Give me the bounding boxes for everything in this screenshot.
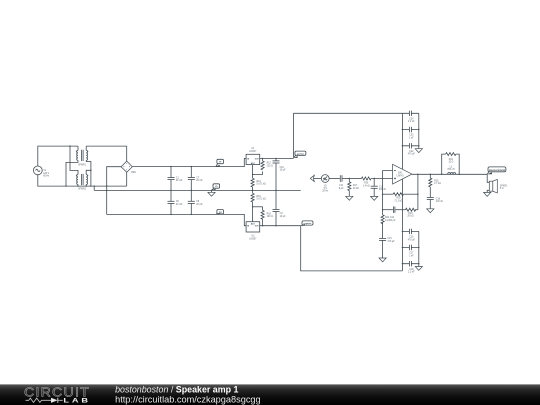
- wire top capacitor bank right rail: [418, 113, 420, 148]
- capacitor C23: [402, 127, 420, 140]
- svg-text:R20: R20: [434, 181, 439, 183]
- svg-text:5.071 kΩ: 5.071 kΩ: [257, 184, 267, 186]
- wire U1 out: [260, 157, 294, 159]
- svg-text:R16: R16: [364, 183, 369, 185]
- svg-text:BR2: BR2: [131, 172, 136, 174]
- wire mid ground rail: [94, 186, 301, 190]
- capacitor C17: [402, 245, 420, 258]
- svg-text:14,000 µF: 14,000 µF: [385, 220, 396, 222]
- resistor R19: [383, 193, 418, 203]
- svg-text:120 Ω: 120 Ω: [267, 165, 273, 167]
- svg-text:XFMR2: XFMR2: [78, 188, 87, 190]
- ground below speaker: [484, 192, 491, 196]
- wire U2 adj: [253, 206, 263, 208]
- wire positive rail up and right: [294, 113, 403, 158]
- resistor R15: [251, 190, 266, 221]
- svg-text:1 nF: 1 nF: [409, 255, 414, 257]
- svg-text:120 Ω: 120 Ω: [267, 216, 273, 218]
- wire XFMR1 primary bottom: [66, 160, 78, 186]
- wire VN lower rail: [107, 214, 246, 225]
- resistor R17: [348, 178, 359, 197]
- inductor L1: [447, 167, 456, 175]
- svg-text:20 Hz: 20 Hz: [322, 191, 329, 193]
- node positive flag: [294, 151, 306, 158]
- svg-text:R21: R21: [449, 159, 454, 161]
- svg-text:C19: C19: [436, 198, 441, 200]
- node input arrow flag: [310, 175, 321, 181]
- wire XFMR1 pins: [78, 146, 127, 150]
- svg-text:10 µF: 10 µF: [280, 170, 287, 172]
- wire op-amp output: [412, 173, 487, 175]
- wire bridge top: [126, 146, 128, 161]
- transformer XFMR2: [76, 174, 89, 191]
- svg-text:ADJ: ADJ: [251, 222, 255, 225]
- svg-text:R23: R23: [408, 213, 413, 215]
- resistor R16: [349, 177, 392, 187]
- svg-text:negative: negative: [304, 222, 312, 225]
- svg-text:R18: R18: [267, 213, 272, 215]
- capacitor C9: [273, 190, 287, 226]
- transformer XFMR1: [76, 150, 89, 167]
- wire bridge right VP feed: [132, 158, 246, 166]
- capacitor C1: [168, 166, 184, 191]
- wire bridge left to VN: [107, 167, 121, 215]
- capacitor C11: [339, 175, 349, 190]
- wire to speaker: [487, 174, 489, 192]
- svg-text:4.7 kΩ: 4.7 kΩ: [434, 183, 441, 185]
- ground below C12: [371, 196, 378, 200]
- capacitor C22: [402, 143, 420, 156]
- svg-text:1.4 kΩ: 1.4 kΩ: [363, 185, 370, 187]
- capacitor C19: [427, 197, 444, 208]
- svg-text:8 Ω: 8 Ω: [500, 188, 504, 190]
- svg-text:1 nF: 1 nF: [409, 137, 414, 139]
- svg-text:C24: C24: [409, 119, 414, 121]
- svg-text:R19: R19: [396, 198, 401, 200]
- svg-text:C15: C15: [387, 238, 392, 240]
- capacitor C15: [379, 223, 395, 258]
- capacitor C18: [402, 261, 420, 274]
- svg-text:20 kΩ: 20 kΩ: [407, 216, 413, 218]
- svg-text:LM317: LM317: [249, 151, 257, 153]
- svg-text:C22: C22: [409, 151, 414, 153]
- svg-text:20 mF: 20 mF: [176, 204, 183, 206]
- svg-text:470 µF: 470 µF: [408, 154, 416, 156]
- wire U2 out: [260, 225, 301, 227]
- wire V2 to C11: [329, 178, 340, 180]
- svg-text:8 µF: 8 µF: [339, 188, 344, 190]
- ground below C19: [427, 209, 434, 213]
- node junction dots left: [69, 145, 70, 146]
- wire V1 top to XFMR1 primary: [38, 146, 78, 166]
- svg-text:OA1: OA1: [398, 171, 403, 174]
- wire primary parallel feed: [70, 146, 78, 174]
- node measurement flag: [487, 167, 506, 174]
- capacitor C6: [168, 190, 184, 215]
- svg-text:C23: C23: [409, 135, 414, 137]
- wire V1 bottom rail: [38, 175, 127, 186]
- ground bottom capacitor bank: [415, 267, 422, 271]
- resistor R12: [261, 158, 273, 175]
- wire op-amp inverting input loop: [383, 171, 393, 215]
- svg-text:220 nF: 220 nF: [436, 201, 444, 203]
- svg-text:measurement: measurement: [489, 169, 505, 172]
- svg-text:10 µF: 10 µF: [280, 216, 287, 218]
- capacitor C10: [273, 158, 287, 191]
- svg-text:20 mF: 20 mF: [176, 180, 183, 182]
- svg-text:10 Ω: 10 Ω: [448, 162, 453, 164]
- node VN flag: [216, 210, 224, 215]
- ground below C15: [379, 258, 386, 262]
- svg-text:71.1 kΩ: 71.1 kΩ: [394, 200, 402, 202]
- svg-text:5.071 kΩ: 5.071 kΩ: [257, 199, 267, 201]
- capacitor C12: [371, 178, 387, 197]
- wire negative rail down and right: [301, 226, 403, 271]
- svg-text:60 Hz: 60 Hz: [43, 175, 50, 177]
- wire op-amp negative supply: [401, 179, 403, 271]
- node negative flag: [301, 221, 313, 226]
- svg-text:http://circuitlab.com/czkapga8: http://circuitlab.com/czkapga8sgcgg: [115, 395, 261, 405]
- regulator U1 LM317: [246, 148, 260, 165]
- svg-text:C11: C11: [339, 185, 344, 187]
- bridge rectifier BR2: [121, 161, 136, 174]
- regulator U2 LM337: [246, 222, 260, 241]
- voltage source V1: [33, 166, 50, 177]
- wire XFMR2 bottom stubs: [78, 185, 86, 187]
- capacitor C16: [402, 229, 419, 242]
- svg-text:470 µF: 470 µF: [408, 239, 416, 241]
- wire bridge bottom: [126, 172, 128, 186]
- svg-text:20 kΩ: 20 kΩ: [353, 188, 359, 190]
- capacitor C13: [383, 207, 406, 213]
- node VP flag: [216, 159, 224, 166]
- capacitor C24: [402, 111, 418, 124]
- ground below R17: [346, 196, 353, 200]
- wire XFMR1 secondary bottom / center tap: [86, 160, 91, 186]
- capacitor C8: [188, 190, 204, 215]
- svg-text:R12: R12: [267, 163, 272, 165]
- svg-text:700 nH: 700 nH: [447, 169, 455, 171]
- svg-text:C17: C17: [409, 253, 414, 255]
- resistor R20: [429, 174, 441, 198]
- svg-text:R15: R15: [257, 196, 262, 198]
- op-amp OA1 LM741: [393, 164, 412, 184]
- ground top capacitor bank: [415, 149, 422, 153]
- svg-text:LAB: LAB: [63, 398, 91, 405]
- svg-text:R13: R13: [257, 181, 262, 183]
- svg-text:V0: V0: [215, 186, 217, 188]
- capacitor C7: [188, 166, 204, 191]
- node V0 flag and ground on mid rail: [208, 184, 220, 196]
- speaker SPKR1: [489, 179, 508, 193]
- signal source V2: [321, 175, 329, 193]
- svg-text:C18: C18: [409, 269, 414, 271]
- svg-text:C16: C16: [409, 237, 414, 239]
- svg-text:LM741: LM741: [397, 176, 405, 178]
- svg-text:ADJ: ADJ: [251, 162, 255, 165]
- wire bottom capacitor bank right rail: [418, 231, 420, 266]
- svg-text:R22 C14: R22 C14: [385, 217, 395, 219]
- resistor R13: [251, 178, 266, 191]
- svg-text:C12: C12: [379, 186, 384, 188]
- svg-text:positive: positive: [297, 152, 304, 155]
- wire U1 adj: [253, 165, 263, 179]
- wire feedback vertical: [417, 174, 419, 209]
- svg-text:C10: C10: [280, 167, 285, 169]
- svg-text:LM337: LM337: [249, 239, 257, 241]
- svg-text:470 µF: 470 µF: [387, 241, 395, 243]
- svg-text:R17: R17: [353, 185, 358, 187]
- resistor R18: [261, 207, 273, 227]
- wire op-amp positive supply: [401, 113, 403, 169]
- svg-text:2.2 nF: 2.2 nF: [408, 272, 415, 274]
- svg-text:SPKR1: SPKR1: [500, 185, 508, 187]
- svg-text:bostonboston / Speaker amp 1: bostonboston / Speaker amp 1: [115, 385, 238, 395]
- svg-text:2.2 nF: 2.2 nF: [408, 121, 415, 123]
- resistor R22 with capacitor C14: [381, 215, 396, 224]
- resistor R21: [441, 153, 460, 175]
- resistor R23: [406, 208, 418, 218]
- svg-text:20 mF: 20 mF: [196, 204, 203, 206]
- svg-text:XFMR1: XFMR1: [78, 164, 87, 166]
- svg-text:20 mF: 20 mF: [196, 180, 203, 182]
